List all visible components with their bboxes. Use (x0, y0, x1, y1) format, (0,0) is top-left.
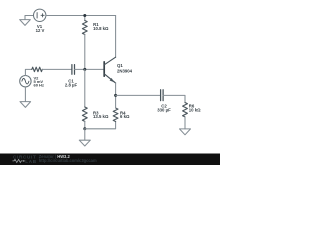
wire C2 to R6 (163, 95, 185, 102)
resistor R4 (113, 108, 118, 122)
svg-text:6 kΩ: 6 kΩ (120, 114, 130, 119)
wire C1 to base (75, 68, 105, 70)
ground G3 under R3 (79, 129, 90, 146)
svg-text:10 kΩ: 10 kΩ (189, 107, 201, 112)
wire collector drop (115, 16, 117, 58)
node top junction dot (83, 14, 86, 17)
resistor R2 series (32, 67, 43, 71)
node R3 bottom junction dot (83, 127, 86, 130)
resistor R3 (84, 69, 86, 107)
svg-text:10.8 kΩ: 10.8 kΩ (93, 26, 109, 31)
footer bar (0, 154, 220, 166)
ground G1 top-left (20, 16, 34, 26)
capacitor C2 (161, 90, 164, 101)
node base junction dot (83, 68, 86, 71)
ground G4 under R6 (180, 129, 191, 135)
resistor R6 (183, 103, 188, 117)
wire V2 top stub (25, 69, 31, 75)
capacitor C1 (72, 65, 75, 75)
transistor Q1 emitter (104, 74, 115, 83)
svg-text:13.5 kΩ: 13.5 kΩ (93, 114, 109, 119)
svg-text:60 Hz: 60 Hz (34, 83, 44, 88)
wire bottom rail (85, 122, 116, 129)
wire R2 to C1 (42, 68, 72, 70)
svg-text:2N3904: 2N3904 (117, 69, 133, 74)
svg-text:http://circuitlab.com/c3gccam: http://circuitlab.com/c3gccam (39, 158, 97, 163)
svg-text:LAB: LAB (25, 159, 37, 164)
svg-text:330 µF: 330 µF (157, 108, 171, 113)
transistor Q1 collector (104, 57, 115, 65)
svg-text:2.8 µF: 2.8 µF (65, 83, 78, 88)
wire top rail (46, 15, 116, 17)
dc source V1 (34, 9, 46, 21)
transistor Q1 base bar (103, 62, 105, 76)
wire emitter rail (116, 94, 161, 96)
node emitter junction dot (114, 94, 117, 97)
sine source V2 (20, 76, 31, 87)
resistor R1 (84, 16, 86, 21)
svg-text:12 V: 12 V (36, 28, 45, 33)
ground G2 under V2 (20, 87, 31, 108)
svg-text:Q1: Q1 (117, 63, 123, 68)
